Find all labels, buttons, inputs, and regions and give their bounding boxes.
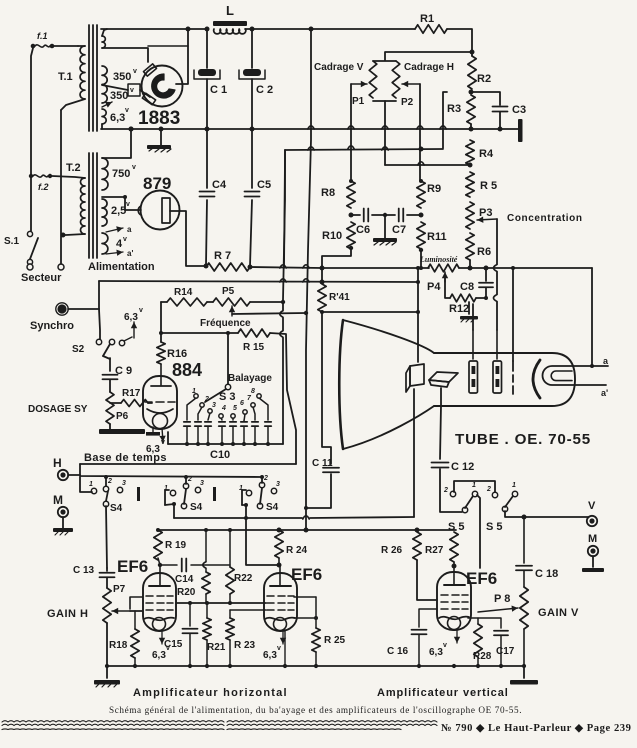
wire anode x512 to line1: [512, 268, 514, 361]
winding T1 secondary 6.3V: [102, 109, 106, 124]
wire x418 vertical to CRT upper plate: [417, 268, 419, 362]
node S4-2 bracket bottom: [172, 502, 176, 506]
node R24 bottom: [277, 563, 282, 568]
wire R15 drop to H line: [270, 333, 296, 464]
wire P7 bottom to bus: [106, 623, 108, 666]
P8 wiper arrow: [478, 608, 518, 612]
node screen x230: [228, 601, 232, 605]
node R10 bottom: [349, 246, 353, 250]
1883 plate lower: [142, 93, 155, 105]
wire S5 contact2 bridge: [454, 481, 495, 492]
wire R1 to R2 column: [447, 29, 472, 56]
wire R22 feed from bus530: [229, 530, 231, 567]
svg-text:R 15: R 15: [243, 342, 265, 353]
svg-text:350: 350: [113, 71, 131, 83]
node a x592: [590, 364, 594, 368]
svg-text:1: 1: [472, 482, 476, 489]
svg-text:Synchro: Synchro: [30, 320, 74, 332]
wire line1 from x322 to Luminosite: [322, 267, 429, 269]
svg-text:C 12: C 12: [451, 461, 474, 473]
svg-text:C 2: C 2: [256, 84, 273, 96]
svg-text:1: 1: [164, 485, 168, 492]
node bus A ground stem: [159, 127, 164, 132]
EF6-2 heater arrow: [282, 631, 284, 644]
svg-text:v: v: [161, 439, 165, 446]
svg-text:R2: R2: [477, 73, 491, 85]
S3 contact 7: [251, 403, 255, 407]
node bottom bus x501: [499, 664, 503, 668]
svg-text:DOSAGE SY: DOSAGE SY: [28, 404, 88, 415]
wire S3 wiper stem: [227, 333, 229, 384]
svg-text:S4: S4: [266, 502, 279, 513]
tube EF6 -2 envelope: [264, 573, 297, 631]
winding T2 4V: [102, 233, 108, 254]
capacitor C4: [206, 129, 208, 188]
svg-text:2: 2: [486, 486, 491, 493]
node bottom bus x478: [476, 664, 480, 668]
capacitor C15: [189, 603, 191, 626]
switch S4 first - contact 3: [117, 487, 122, 492]
svg-text:EF6: EF6: [117, 557, 148, 576]
switch S4 second - lever and pivot: [181, 503, 186, 508]
svg-text:C14: C14: [175, 574, 194, 585]
wire EF6-2 screen to R25 column: [294, 596, 316, 598]
wire bracket bottom down to y165 line: [384, 101, 386, 165]
svg-text:R6: R6: [477, 246, 491, 258]
svg-text:T.1: T.1: [58, 71, 73, 83]
node bus top at x311: [309, 27, 314, 32]
resistor R14: [167, 298, 207, 306]
capacitor C18: [523, 517, 525, 563]
winding T1 secondary 350V: [102, 66, 107, 103]
884 grid dashes: [145, 401, 152, 403]
hop line2 over x306: [303, 279, 309, 282]
EF6-1 grid dashes: [146, 595, 153, 597]
wire R26 bottom to grid: [417, 560, 437, 600]
switch S4 third - contact 2: [259, 482, 264, 487]
node R19 bottom plate node: [158, 558, 160, 565]
node bottom bus x135: [133, 664, 137, 668]
svg-text:3: 3: [212, 402, 216, 409]
P4 wiper arrow: [444, 272, 446, 282]
terminal H: [58, 470, 68, 480]
node screen x190: [188, 601, 192, 605]
capacitor C11: [323, 467, 339, 469]
choke L winding: [214, 29, 246, 34]
node bottom bus x230: [228, 664, 232, 668]
svg-text:EF6: EF6: [291, 565, 322, 584]
potentiometer P6: [106, 392, 114, 424]
C10 capacitor 6: [244, 414, 245, 421]
svg-text:6,3: 6,3: [429, 647, 443, 658]
node bottom bus x454: [452, 664, 456, 668]
svg-text:4: 4: [221, 405, 226, 412]
wire T1 primary bottom to second mains wire: [61, 99, 85, 110]
resistor R22: [226, 567, 234, 594]
wire x592 riser down to a-line: [591, 268, 593, 366]
ground bottom right: [523, 666, 525, 678]
CRT electrode bar 1: [469, 361, 478, 393]
fuse f.1: [31, 44, 36, 49]
svg-text:S.1: S.1: [4, 236, 19, 247]
hop bus A over bracket stem: [382, 126, 388, 129]
wire S5-1 contact1 down to EF6-3 region: [477, 495, 480, 568]
EF6-1 anode: [159, 565, 161, 585]
EF6-2 heater circle: [274, 618, 287, 631]
CRT deflection plate H parallelogram: [429, 372, 458, 382]
svg-text:C 9: C 9: [115, 365, 132, 377]
S2 third contact for 6.3 tap: [119, 340, 124, 345]
resistor R6: [466, 233, 474, 260]
node x306 bus530: [304, 528, 309, 533]
wire screen line y603: [176, 602, 266, 604]
capacitor C3: [493, 106, 508, 108]
node C2 bus A: [250, 127, 255, 132]
svg-text:M: M: [53, 493, 63, 507]
wire R2R3 junction to C3: [471, 92, 500, 105]
C10 capacitor 3: [208, 413, 210, 420]
svg-text:v: v: [139, 307, 143, 314]
svg-text:R'41: R'41: [329, 292, 350, 303]
tube EF6 -3 envelope: [437, 572, 471, 630]
svg-text:884: 884: [172, 360, 202, 380]
node P5 wiper on x306: [304, 311, 308, 315]
wire H to fork: [68, 474, 80, 476]
884 heater circle: [153, 414, 168, 429]
EF6-1 cathode arc: [144, 618, 174, 621]
node C18 top: [522, 515, 527, 520]
svg-text:1: 1: [89, 481, 93, 488]
capacitor C13: [106, 568, 108, 571]
CRT gun hairpin and wire a: [543, 366, 609, 385]
winding T1 secondary top (plate winding upper): [102, 36, 105, 48]
svg-text:R20: R20: [177, 587, 196, 598]
capacitor C8: [485, 268, 487, 281]
switch S4 first - lever and pivot: [103, 501, 108, 506]
wire upper-left plate down to S4 line: [413, 389, 415, 517]
S3 contact 3: [208, 409, 212, 413]
node R3 bus A: [469, 127, 474, 132]
CRT neck outline: [434, 353, 575, 406]
EF6-2 cathode arc: [265, 618, 295, 621]
svg-text:v: v: [126, 201, 130, 208]
svg-text:a': a': [601, 388, 608, 398]
svg-text:C 16: C 16: [387, 646, 409, 657]
wire electrode2 up to P3 wiper: [496, 330, 498, 359]
svg-text:Concentration: Concentration: [507, 213, 583, 224]
svg-text:Cadrage H: Cadrage H: [404, 62, 454, 73]
wire secondary to cathode riser: [148, 45, 188, 47]
svg-text:8: 8: [251, 388, 255, 395]
svg-text:R22: R22: [234, 573, 253, 584]
svg-text:2: 2: [204, 396, 209, 403]
wire top B+ bus: [101, 28, 207, 30]
node R7 right C5: [248, 265, 253, 270]
ground below 1883: [160, 129, 162, 145]
wire EF6-2 cathode to R25 column: [294, 617, 316, 619]
wire 6.3 tap arrow near S2: [133, 322, 135, 338]
potentiometer P5: [213, 298, 250, 306]
ground below M: [62, 517, 64, 528]
wire secondary top to bus: [102, 29, 107, 36]
1883 cathode crescent: [152, 74, 175, 98]
svg-text:C6: C6: [356, 224, 370, 236]
transformer T2 primary winding: [81, 178, 85, 234]
potentiometer bracket bottom: [373, 100, 396, 102]
node T2 bottom on mains wire: [61, 233, 66, 238]
EF6-1 heater circle: [153, 618, 166, 631]
potentiometer P4 Luminosite: [428, 264, 459, 272]
capacitor C6: [351, 214, 360, 216]
hop y165 over R9 column: [418, 162, 424, 165]
resistor R12: [450, 294, 476, 302]
wire x283 vertical: [283, 150, 285, 310]
svg-text:R16: R16: [167, 348, 187, 360]
capacitor C1 electrolytic: [206, 29, 208, 68]
svg-text:EF6: EF6: [466, 569, 497, 588]
svg-text:Luminosité: Luminosité: [419, 255, 458, 264]
EF6-3 heater circle: [448, 617, 461, 630]
CRT cathode arc: [533, 360, 540, 398]
wire mains second vertical: [60, 110, 62, 264]
svg-text:R27: R27: [425, 545, 444, 556]
svg-text:R12: R12: [449, 303, 469, 315]
svg-text:P1: P1: [352, 96, 365, 107]
S4-2 contact 1: [170, 490, 175, 495]
svg-text:6: 6: [240, 400, 244, 407]
transformer T1 primary winding: [80, 46, 85, 99]
svg-text:v: v: [443, 642, 447, 649]
svg-text:T.2: T.2: [66, 162, 81, 174]
resistor R23: [229, 610, 231, 618]
resistor R18: [134, 611, 136, 629]
EF6-2 anode: [279, 565, 281, 585]
resistor R24: [275, 530, 283, 558]
svg-text:R18: R18: [109, 640, 128, 651]
svg-text:6,3: 6,3: [124, 312, 138, 323]
node S4-3 bracket bottom: [244, 503, 248, 507]
switch S3 lever: [225, 384, 230, 389]
choke L core: [213, 21, 247, 26]
svg-text:R 24: R 24: [286, 545, 308, 556]
884 anode: [160, 364, 162, 385]
CRT deflection plate V parallelogram: [410, 364, 424, 386]
node bus B at R9 column: [419, 147, 424, 152]
node R1/Cadrage junction: [470, 50, 475, 55]
node C14 plate node: [158, 563, 162, 567]
hop line2 over x283: [280, 279, 286, 282]
ground below M right: [592, 556, 594, 567]
capacitor C9: [103, 374, 118, 376]
wire electrode1 up to R12 ground node: [472, 330, 474, 359]
wire 884 cathode to C10 bus: [167, 432, 169, 444]
wire mains left vertical: [31, 48, 33, 231]
resistor R15: [238, 329, 270, 337]
node R24 top: [277, 528, 282, 533]
svg-text:C4: C4: [212, 179, 227, 191]
wire P7 wiper to grid: [130, 610, 142, 612]
wire 879 plate to R7: [170, 211, 206, 266]
wire R10 bottom jog to x322: [322, 249, 351, 266]
svg-text:6,3: 6,3: [152, 650, 166, 661]
wire second grid line y610: [230, 609, 266, 611]
wire R16 top to grid line: [160, 333, 162, 342]
svg-text:R21: R21: [207, 642, 226, 653]
node R4 R5 junction: [468, 163, 473, 168]
svg-text:2: 2: [107, 478, 112, 485]
879 anode bar: [162, 198, 170, 223]
wire 750/2.5 junction to 879: [102, 197, 141, 210]
wire bus to R1: [311, 28, 415, 30]
winding T2 2.5V: [102, 199, 107, 226]
wire S4-3 down to EF6-2 plate node: [246, 505, 279, 565]
resistor R2: [468, 56, 476, 89]
node screen x207: [205, 601, 209, 605]
resistor R19: [154, 530, 162, 560]
wire f.2 to T2 primary: [52, 176, 85, 178]
terminal M right: [588, 546, 598, 556]
svg-text:R 7: R 7: [214, 250, 231, 262]
wire f.1 to T1 primary: [54, 45, 78, 47]
svg-text:GAIN V: GAIN V: [538, 607, 579, 619]
tube EF6 -1 envelope: [143, 573, 176, 631]
potentiometer P1: [369, 61, 377, 98]
wire H line y477: [80, 475, 262, 477]
node x418 line2 end: [416, 280, 420, 284]
svg-text:S2: S2: [72, 344, 85, 355]
svg-text:C5: C5: [257, 179, 271, 191]
node bottom bus x285: [283, 664, 287, 668]
terminal M: [58, 507, 68, 517]
terminal Synchro: [57, 304, 66, 313]
capacitor C16: [419, 609, 437, 627]
node bus top at C2: [250, 27, 255, 32]
switch S4 second - bracket: [165, 490, 169, 505]
node x418 on line1: [416, 266, 420, 270]
node C1 bus A: [205, 127, 210, 132]
svg-text:R8: R8: [321, 187, 335, 199]
884 heater arrow: [162, 428, 163, 442]
switch S.1: [27, 231, 32, 236]
svg-text:Fréquence: Fréquence: [200, 318, 251, 329]
svg-text:C 1: C 1: [210, 84, 227, 96]
CRT bell outline: [343, 320, 434, 353]
potentiometer P3: [466, 202, 474, 229]
switch S5 second - lever: [505, 496, 513, 507]
terminal Secteur left: [29, 264, 31, 266]
wire H-line y464: [80, 463, 296, 465]
svg-text:P5: P5: [222, 286, 235, 297]
switch S4 second - contact 3: [195, 487, 200, 492]
fuse f.2: [29, 174, 33, 178]
svg-text:R28: R28: [473, 651, 492, 662]
EF6-3 anode: [453, 572, 455, 584]
svg-text:Amplificateur horizontal: Amplificateur horizontal: [133, 687, 288, 699]
svg-text:f.1: f.1: [37, 31, 48, 41]
svg-text:P7: P7: [113, 584, 126, 595]
svg-text:P4: P4: [427, 281, 441, 293]
wire y312 from R41 to x418: [322, 311, 418, 313]
wire EF6-2 heater down: [284, 630, 286, 666]
svg-text:Base de temps: Base de temps: [84, 452, 167, 464]
svg-text:R 23: R 23: [234, 640, 256, 651]
EF6-1 heater arrow: [161, 631, 163, 644]
node top bus junction at cathode: [186, 27, 191, 32]
resistor R25: [312, 628, 320, 652]
node R8 R10 junction: [349, 213, 354, 218]
switch S4 second - stop bar: [213, 487, 216, 501]
terminal Secteur right: [58, 264, 64, 270]
node bottom bus x107: [105, 664, 109, 668]
resistor R1: [415, 25, 447, 33]
capacitor C12: [432, 462, 449, 464]
potentiometer bracket top: [373, 60, 396, 62]
switch S4 third - contact 1: [246, 490, 251, 495]
svg-text:R3: R3: [447, 103, 461, 115]
tube 879 envelope: [141, 191, 180, 230]
S3 contact 2: [200, 403, 204, 407]
resistor R20 feed from bus530: [205, 530, 207, 561]
hop bus A over riser x443: [440, 126, 446, 129]
wire S5-2 pivot to V line: [505, 511, 588, 517]
node R25 column cathode join: [314, 616, 318, 620]
hop bus A over P2 wire: [417, 126, 423, 129]
resistor R11: [417, 222, 425, 249]
resistor R21: [206, 603, 208, 618]
svg-text:C8: C8: [460, 281, 474, 293]
node R8 top: [349, 179, 353, 183]
node C8 top: [484, 266, 489, 271]
resistor R41: [318, 284, 326, 312]
switch S4 third - contact 3: [271, 488, 276, 493]
wire R3 bottom to bus A: [470, 124, 472, 129]
P5 wiper arrow and feed to x306: [231, 306, 233, 316]
resistor R5: [466, 172, 474, 197]
svg-text:TUBE . OE. 70-55: TUBE . OE. 70-55: [455, 431, 591, 448]
svg-text:3: 3: [122, 480, 126, 487]
EF6-3 heater arrow: [456, 630, 458, 643]
svg-text:R14: R14: [174, 287, 193, 298]
node x322 line1: [320, 266, 325, 271]
svg-text:C17: C17: [496, 646, 515, 657]
wire Synchro to S2: [68, 308, 99, 310]
svg-text:S4: S4: [110, 503, 123, 514]
svg-text:S 5: S 5: [448, 521, 465, 533]
node R26 top: [415, 528, 420, 533]
CRT electrode bar 2: [493, 361, 502, 393]
node R11 line1: [419, 266, 423, 270]
svg-text:S4: S4: [190, 502, 203, 513]
switch S5 first - pivot: [462, 507, 467, 512]
node R9 top: [419, 179, 423, 183]
wire P1 wiper down through buses to R8: [350, 84, 352, 179]
node bus A x131: [129, 127, 134, 132]
svg-text:350: 350: [110, 90, 128, 102]
transformer T2 core: [88, 153, 90, 258]
switch S4 first - contact 1: [91, 488, 96, 493]
hop bus A over P1 wire: [348, 126, 354, 129]
wire bus530: [158, 529, 456, 531]
wire 6.3 winding to bus A: [101, 124, 103, 129]
capacitor C5: [251, 129, 253, 188]
resistor R3: [467, 95, 475, 124]
svg-text:P6: P6: [116, 411, 129, 422]
wire bus A main horizontal: [101, 128, 500, 130]
wire R12 right to C8 bottom: [476, 297, 486, 299]
switch S4 third - bracket: [242, 490, 246, 505]
wire 350 tap box to 1883 lower plate: [128, 84, 140, 96]
switch S5 second - contact 2: [492, 492, 497, 497]
